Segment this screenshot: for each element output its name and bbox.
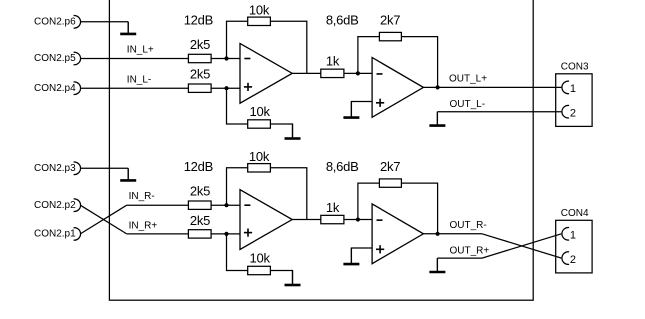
- svg-text:2: 2: [570, 107, 576, 119]
- svg-text:10k: 10k: [249, 250, 270, 265]
- svg-text:OUT_R+: OUT_R+: [450, 246, 490, 257]
- svg-text:2k7: 2k7: [380, 13, 400, 28]
- svg-text:CON3: CON3: [561, 61, 589, 72]
- svg-text:CON2.p1: CON2.p1: [34, 229, 76, 240]
- svg-text:CON2.p4: CON2.p4: [34, 83, 76, 94]
- svg-text:CON2.p2: CON2.p2: [34, 200, 76, 211]
- svg-text:2k7: 2k7: [380, 159, 400, 174]
- svg-text:12dB: 12dB: [184, 159, 213, 174]
- svg-text:10k: 10k: [249, 3, 270, 18]
- svg-text:1k: 1k: [326, 200, 340, 215]
- svg-text:CON2.p5: CON2.p5: [34, 53, 76, 64]
- svg-text:2: 2: [570, 254, 576, 266]
- svg-text:2k5: 2k5: [190, 184, 210, 199]
- svg-text:CON2.p3: CON2.p3: [34, 163, 76, 174]
- svg-text:CON2.p6: CON2.p6: [34, 17, 76, 28]
- svg-text:OUT_L-: OUT_L-: [450, 99, 486, 110]
- svg-text:IN_R-: IN_R-: [129, 191, 155, 202]
- svg-text:1k: 1k: [326, 53, 340, 68]
- svg-text:IN_L+: IN_L+: [127, 45, 154, 56]
- svg-text:IN_R+: IN_R+: [129, 221, 158, 232]
- svg-text:1: 1: [570, 230, 576, 242]
- svg-text:2k5: 2k5: [190, 67, 210, 82]
- svg-text:1: 1: [570, 83, 576, 95]
- svg-text:OUT_R-: OUT_R-: [450, 220, 487, 231]
- svg-text:OUT_L+: OUT_L+: [449, 74, 487, 85]
- svg-text:2k5: 2k5: [190, 213, 210, 228]
- svg-text:12dB: 12dB: [184, 13, 213, 28]
- svg-text:CON4: CON4: [561, 208, 589, 219]
- svg-text:10k: 10k: [249, 104, 270, 119]
- svg-text:IN_L-: IN_L-: [127, 74, 151, 85]
- svg-text:8,6dB: 8,6dB: [326, 13, 359, 28]
- svg-text:2k5: 2k5: [190, 37, 210, 52]
- svg-text:8,6dB: 8,6dB: [326, 159, 359, 174]
- svg-text:10k: 10k: [249, 149, 270, 164]
